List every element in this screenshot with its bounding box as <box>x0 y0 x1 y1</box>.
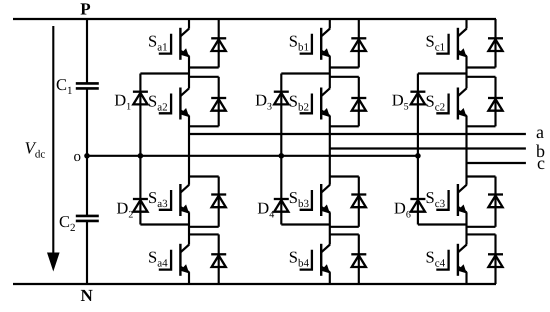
capacitor C1 <box>76 82 99 85</box>
Vdc arrowhead <box>47 253 60 272</box>
Vdc arrow line <box>52 26 54 254</box>
svg-text:P: P <box>80 0 90 18</box>
wire Sa1 freewheel diode branch <box>218 19 220 68</box>
wire capacitor branch top (P to C1) <box>86 19 88 83</box>
wire phase b Sb1 emitter to Sb2 collector <box>329 56 331 88</box>
IGBT Sc1 <box>436 34 448 54</box>
IGBT Sa3 <box>159 190 171 210</box>
wire Sc1 emitter-diode connector <box>467 66 496 68</box>
clamp diode D4 <box>274 198 289 200</box>
clamp diode D1 <box>133 91 148 93</box>
wire phase c Sc1 emitter to Sc2 collector <box>465 56 467 88</box>
wire phase a Sa4 emitter to N <box>188 272 190 284</box>
wire Sa1 emitter-diode connector <box>189 66 219 68</box>
clamp diode D3 <box>274 91 289 93</box>
freewheel diode of Sc4 <box>488 253 503 255</box>
wire clamp bottom connector phase b <box>281 223 330 225</box>
junction dot clamp-b on o rail <box>279 153 285 159</box>
wire phase c midpoint column (Sc2 emitter to Sc3 collector) <box>465 116 467 185</box>
freewheel diode of Sb1 <box>351 37 366 39</box>
wire phase a Sa1 emitter to Sa2 collector <box>188 56 190 88</box>
wire phase c Sc3 emitter to Sc4 collector <box>465 212 467 244</box>
freewheel diode of Sb3 <box>351 193 366 195</box>
wire Sc1 freewheel diode branch <box>494 19 496 68</box>
wire phase c Sc1 collector from P <box>465 19 467 29</box>
wire Sa2 emitter-diode connector (midpoint) <box>189 125 219 127</box>
wire clamp top connector phase b <box>281 72 330 74</box>
node o junction dot <box>84 153 90 159</box>
svg-text:N: N <box>81 286 94 305</box>
IGBT Sc4 <box>436 250 448 270</box>
junction dot clamp-c on o rail <box>415 153 421 159</box>
wire Sa3 diode top connector <box>189 175 219 177</box>
svg-text:c: c <box>537 153 545 173</box>
IGBT Sc3 <box>436 190 448 210</box>
wire output line a <box>189 133 526 135</box>
wire Sa3 freewheel diode branch <box>218 177 220 227</box>
IGBT Sb4 <box>300 250 312 270</box>
wire Sb4 freewheel diode branch to N <box>358 234 360 284</box>
wire Sb1 freewheel diode branch <box>358 19 360 68</box>
clamp diode D6 <box>410 198 425 200</box>
wire phase b Sb3 emitter to Sb4 collector <box>329 212 331 244</box>
IGBT Sb1 <box>300 34 312 54</box>
svg-text:a: a <box>536 122 544 142</box>
wire C1 to C2 <box>86 89 88 216</box>
wire phase a Sa1 collector from P <box>188 19 190 29</box>
freewheel diode of Sb4 <box>351 253 366 255</box>
freewheel diode of Sb2 <box>351 97 366 99</box>
wire Sa4 diode top connector <box>189 233 219 235</box>
wire Sc3 diode top connector <box>467 175 496 177</box>
wire neutral o rail <box>87 155 418 157</box>
wire clamp top connector phase a <box>140 72 189 74</box>
freewheel diode of Sc3 <box>488 193 503 195</box>
wire Sb2 emitter-diode connector (midpoint) <box>330 125 359 127</box>
IGBT Sb2 <box>300 94 312 114</box>
wire Sa2 diode top connector <box>189 76 219 78</box>
wire P rail <box>13 18 496 20</box>
wire clamp bottom connector phase c <box>418 223 467 225</box>
wire Sb3 diode top connector <box>330 175 359 177</box>
wire Sc2 emitter-diode connector (midpoint) <box>467 125 496 127</box>
IGBT Sa4 <box>159 250 171 270</box>
wire phase c Sc4 emitter to N <box>465 272 467 284</box>
wire capacitor branch bottom (C2 to N) <box>86 221 88 284</box>
wire phase b Sb1 collector from P <box>329 19 331 29</box>
capacitor C2 <box>76 215 99 218</box>
freewheel diode of Sa2 <box>211 97 226 99</box>
freewheel diode of Sc2 <box>488 97 503 99</box>
wire clamp diode branch phase b <box>280 74 282 225</box>
wire Sa2 freewheel diode branch <box>218 77 220 127</box>
wire output line c <box>467 162 526 164</box>
wire Sc3 emitter-diode connector <box>467 226 496 228</box>
wire phase a Sa3 emitter to Sa4 collector <box>188 212 190 244</box>
freewheel diode of Sc1 <box>488 37 503 39</box>
clamp diode D5 <box>410 91 425 93</box>
freewheel diode of Sa4 <box>211 253 226 255</box>
wire Sc4 freewheel diode branch to N <box>494 234 496 284</box>
wire Sb1 emitter-diode connector <box>330 66 359 68</box>
wire clamp diode branch phase c <box>417 74 419 225</box>
junction dot clamp-a on o rail <box>138 153 144 159</box>
wire Sc4 diode top connector <box>467 233 496 235</box>
wire Sc3 freewheel diode branch <box>494 177 496 227</box>
freewheel diode of Sa3 <box>211 193 226 195</box>
svg-text:o: o <box>74 149 82 165</box>
wire Sc2 freewheel diode branch <box>494 77 496 127</box>
wire Sc2 diode top connector <box>467 76 496 78</box>
wire phase b midpoint column (Sb2 emitter to Sb3 collector) <box>329 116 331 185</box>
wire Sa4 freewheel diode branch to N <box>218 234 220 284</box>
wire phase a midpoint column (Sa2 emitter to Sa3 collector) <box>188 116 190 185</box>
wire Sb3 emitter-diode connector <box>330 226 359 228</box>
wire Sb3 freewheel diode branch <box>358 177 360 227</box>
wire Sb2 diode top connector <box>330 76 359 78</box>
wire N rail <box>13 283 496 285</box>
IGBT Sc2 <box>436 94 448 114</box>
wire clamp bottom connector phase a <box>140 223 189 225</box>
wire Sb2 freewheel diode branch <box>358 77 360 127</box>
IGBT Sa1 <box>159 34 171 54</box>
wire clamp top connector phase c <box>418 72 467 74</box>
freewheel diode of Sa1 <box>211 37 226 39</box>
wire output line b <box>330 147 526 149</box>
IGBT Sa2 <box>159 94 171 114</box>
wire phase b Sb4 emitter to N <box>329 272 331 284</box>
wire Sa3 emitter-diode connector <box>189 226 219 228</box>
wire clamp diode branch phase a <box>139 74 141 225</box>
IGBT Sb3 <box>300 190 312 210</box>
clamp diode D2 <box>133 198 148 200</box>
wire Sb4 diode top connector <box>330 233 359 235</box>
